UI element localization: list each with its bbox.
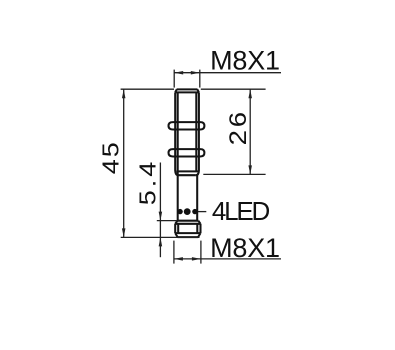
arrow dim45 bottom [122, 228, 126, 237]
arrow top M8X1 left [174, 71, 183, 75]
top M8X1 dim line [174, 72, 281, 74]
top M8X1 ext line left [173, 70, 175, 88]
dim 45 line [123, 89, 125, 237]
top chamfer left [175, 89, 177, 92]
sleeve outer left edge [175, 92, 178, 175]
svg-text:M8X1: M8X1 [210, 233, 280, 263]
top M8X1 ext line right [199, 70, 201, 88]
label 26 (rotated) [226, 109, 252, 145]
collar ring 2 [169, 149, 205, 156]
arrow top M8X1 right [191, 71, 200, 75]
svg-text:4LED: 4LED [212, 196, 270, 226]
sleeve bottom relief line [176, 170, 198, 172]
dim 5.4 tick line [157, 220, 177, 222]
sleeve bottom edge [178, 174, 196, 176]
arrow bottom M8X1 right [192, 257, 201, 261]
label 5.4 (rotated) [135, 159, 161, 206]
thread minor line right (sleeve) [195, 92, 197, 171]
bottom cap thread minor right [196, 224, 198, 233]
label 45 (rotated) [98, 140, 124, 174]
svg-text:26: 26 [226, 109, 252, 145]
arrow dim26 top [248, 89, 252, 98]
LED dot right [192, 209, 197, 214]
bottom cap bottom edge [178, 236, 199, 238]
LED dot left [177, 209, 182, 214]
dim 5.4 line [159, 163, 161, 258]
bottom face extension line [121, 236, 200, 238]
collar ring 1 [169, 122, 205, 129]
bottom cap top edge [177, 220, 198, 222]
svg-text:M8X1: M8X1 [210, 45, 280, 75]
body right edge [196, 175, 198, 221]
bottom cap thread line lower [175, 232, 200, 234]
arrow dim5.4 upper (points down) [159, 212, 163, 221]
LED dot middle [184, 208, 191, 215]
bottom cap bottom chamfer left [175, 233, 177, 237]
bottom cap thread line upper [175, 223, 200, 225]
bottom cap top chamfer left [175, 221, 177, 224]
arrow bottom M8X1 left [174, 257, 183, 261]
dim 26 line [249, 89, 251, 174]
svg-text:5.4: 5.4 [135, 159, 161, 206]
bottom cap thread minor left [177, 224, 179, 233]
top face extension line right [201, 88, 266, 90]
bottom cap top chamfer right [198, 221, 200, 224]
svg-text:45: 45 [98, 140, 124, 174]
top face extension line left [121, 88, 174, 90]
thread minor / body left edge [177, 92, 179, 220]
top chamfer right [197, 89, 199, 92]
bottom cap outer right edge [199, 224, 201, 233]
thread start line [175, 91, 199, 93]
4LED leader line [198, 211, 207, 213]
arrow dim45 top [122, 89, 126, 98]
arrow dim5.4 lower (points up) [159, 237, 163, 246]
arrow dim26 bottom [248, 165, 252, 174]
bottom M8X1 ext line left [173, 241, 175, 264]
sensor top face [177, 88, 198, 90]
sleeve outer right edge [196, 92, 199, 175]
bottom cap outer left edge [174, 224, 176, 233]
bottom M8X1 dim line [174, 258, 281, 260]
step extension line [203, 173, 265, 175]
bottom M8X1 ext line right [200, 241, 202, 264]
bottom cap bottom chamfer right [198, 233, 200, 237]
